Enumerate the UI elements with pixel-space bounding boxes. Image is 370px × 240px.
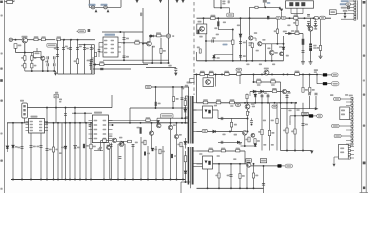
junction xyxy=(302,115,304,117)
wire ground bus 2 xyxy=(197,187,264,189)
resistor R942 xyxy=(302,87,304,92)
capacitor C943 xyxy=(40,146,43,148)
connector pin xyxy=(348,145,350,147)
optocoupler IC902 xyxy=(203,106,213,118)
label xyxy=(340,148,344,150)
label xyxy=(93,146,96,148)
junction xyxy=(313,17,315,19)
connector pin xyxy=(354,13,356,15)
resistor R952 xyxy=(180,142,182,147)
label xyxy=(49,149,52,151)
junction xyxy=(232,29,234,31)
connector pin xyxy=(354,6,356,8)
junction xyxy=(47,70,49,72)
optocoupler IC906 xyxy=(203,156,213,169)
label xyxy=(271,120,274,122)
label xyxy=(341,7,347,9)
wire hidden xyxy=(261,151,263,156)
wire xyxy=(281,12,283,18)
label xyxy=(209,71,213,73)
hidden xyxy=(308,89,310,91)
resistor R902 xyxy=(57,38,61,40)
label xyxy=(267,48,270,50)
label xyxy=(222,1,225,3)
wire xyxy=(42,60,44,71)
wire xyxy=(118,143,125,145)
net label xyxy=(145,85,151,88)
junction xyxy=(40,122,42,124)
label xyxy=(223,44,228,46)
wire hidden xyxy=(302,96,304,109)
wire filter bottom xyxy=(58,73,95,75)
wire xyxy=(290,115,309,117)
label xyxy=(217,155,220,157)
wire bus 108 xyxy=(130,107,185,109)
wire drop xyxy=(65,123,67,180)
wire xyxy=(79,44,95,46)
junction xyxy=(239,163,241,165)
label xyxy=(137,127,140,129)
label xyxy=(184,98,187,100)
junction xyxy=(157,122,159,124)
component K1 xyxy=(88,29,91,32)
transformer stub xyxy=(185,107,188,109)
wire xyxy=(249,92,251,97)
label xyxy=(314,71,317,73)
relay RL1 xyxy=(22,38,27,43)
label xyxy=(295,71,300,73)
label C902 xyxy=(101,4,108,6)
capacitor C936 xyxy=(308,93,311,95)
capacitor C920 xyxy=(89,64,92,66)
connector pin xyxy=(351,122,353,124)
wire xyxy=(302,34,304,60)
wire xyxy=(203,18,205,24)
transistor Q917 xyxy=(112,138,116,142)
wire xyxy=(282,165,285,167)
wire xyxy=(246,40,248,61)
junction xyxy=(112,124,114,126)
pin wire xyxy=(45,124,49,126)
junction xyxy=(302,73,304,75)
label xyxy=(154,149,157,151)
varistor Z901 xyxy=(24,56,26,60)
wire xyxy=(90,60,92,70)
wire xyxy=(184,138,186,149)
label plate AC 220V xyxy=(47,44,57,48)
frame bottom right corner xyxy=(360,191,369,193)
resistor R911 xyxy=(173,97,175,102)
wire xyxy=(129,108,131,123)
connector pin xyxy=(351,115,353,117)
capacitor C942 xyxy=(30,146,33,148)
pin label xyxy=(39,130,42,131)
wire xyxy=(53,60,55,64)
wire xyxy=(31,68,33,71)
junction xyxy=(69,122,71,124)
resistor R908 xyxy=(157,34,161,37)
wire xyxy=(120,0,122,7)
transformer stub xyxy=(193,122,197,124)
transformer stub xyxy=(193,150,197,152)
wire xyxy=(251,118,253,120)
wire xyxy=(24,118,26,123)
junction xyxy=(85,122,87,124)
resistor R962 xyxy=(230,122,232,127)
label xyxy=(252,106,255,108)
label xyxy=(77,147,80,149)
label xyxy=(242,175,245,177)
net label xyxy=(285,164,292,168)
wire xyxy=(188,87,190,96)
wire xyxy=(156,118,158,123)
label xyxy=(312,89,315,91)
diode D904 xyxy=(239,34,242,37)
frame right border outer xyxy=(361,0,363,193)
net label G4 xyxy=(334,134,341,137)
resistor R954 xyxy=(209,149,213,152)
capacitor C938 xyxy=(64,114,67,116)
net label xyxy=(78,30,86,33)
pin wire xyxy=(336,13,354,15)
wire aux xyxy=(151,86,189,88)
wire xyxy=(276,103,278,151)
wire xyxy=(16,52,34,54)
resistor R927 xyxy=(319,46,321,51)
label xyxy=(74,60,77,62)
pin wire xyxy=(89,129,93,131)
pin label xyxy=(104,52,107,54)
label xyxy=(146,117,150,119)
junction xyxy=(304,17,306,19)
wire xyxy=(55,108,57,123)
label xyxy=(264,92,267,94)
wire filter xyxy=(57,40,59,74)
junction xyxy=(251,60,253,62)
wire xyxy=(249,35,251,37)
diode D905 xyxy=(282,47,285,50)
label C901 xyxy=(89,4,96,6)
junction xyxy=(205,60,207,62)
frame letter D xyxy=(0,1,3,3)
wire xyxy=(38,39,41,41)
wire filter xyxy=(77,40,79,74)
connector body xyxy=(354,0,356,19)
junction xyxy=(160,62,162,64)
wire xyxy=(265,44,267,61)
resistor R953 xyxy=(184,156,187,162)
wire hidden xyxy=(193,155,197,157)
capacitor C953 xyxy=(230,175,233,177)
wire xyxy=(24,43,26,53)
wire xyxy=(218,164,220,189)
label xyxy=(126,38,129,40)
net label +B xyxy=(332,73,339,77)
label xyxy=(234,134,237,136)
IC IC905 xyxy=(92,115,108,143)
pin wire xyxy=(108,133,112,135)
wire drop xyxy=(155,146,157,180)
pin wire xyxy=(351,3,355,5)
junction xyxy=(55,107,57,109)
wire secondary bus xyxy=(197,102,297,104)
pin wire xyxy=(108,138,112,140)
capacitor C924 xyxy=(267,16,269,19)
wire xyxy=(231,119,233,132)
connector pin xyxy=(351,143,353,145)
junction xyxy=(12,122,14,124)
diode D915 xyxy=(184,171,187,174)
transistor Q902 mark xyxy=(197,30,199,34)
resistor R931 xyxy=(203,101,208,104)
pin wire xyxy=(350,157,354,159)
label xyxy=(141,142,144,144)
resistor R923 xyxy=(272,90,276,93)
label xyxy=(247,111,250,113)
wire drop xyxy=(69,123,71,180)
connector CN902 xyxy=(339,145,349,160)
junction xyxy=(249,17,251,19)
capacitor C917 xyxy=(123,38,126,40)
label xyxy=(271,79,276,81)
capacitor C958 xyxy=(286,96,289,98)
label xyxy=(263,120,266,122)
wire xyxy=(194,109,203,111)
label xyxy=(256,50,259,52)
wire drop xyxy=(176,148,178,180)
label xyxy=(245,139,248,141)
junction xyxy=(207,187,209,189)
wire xyxy=(74,108,76,123)
junction xyxy=(84,112,86,114)
label xyxy=(174,155,177,157)
transformer stub xyxy=(185,141,188,143)
pin wire xyxy=(350,150,354,152)
frame letter Y xyxy=(363,187,365,190)
capacitor C926 xyxy=(302,39,305,45)
capacitor C922 xyxy=(181,98,184,100)
label xyxy=(217,57,220,59)
wire xyxy=(313,115,316,117)
wire xyxy=(176,123,178,135)
diode D916 xyxy=(6,146,9,149)
label xyxy=(233,158,236,160)
box xyxy=(330,10,337,15)
junction xyxy=(267,102,269,104)
hidden xyxy=(92,125,94,127)
label D8 xyxy=(140,13,142,17)
AC terminal xyxy=(9,38,12,41)
ferrite bead FB4 xyxy=(277,164,281,167)
label xyxy=(234,124,237,126)
ferrite bead FB1 xyxy=(323,73,327,76)
junction xyxy=(230,187,232,189)
connector pin xyxy=(351,101,353,103)
wire xyxy=(47,60,49,64)
box Q902 xyxy=(197,24,207,34)
wire xyxy=(232,30,234,61)
label xyxy=(243,42,246,44)
ground arrow xyxy=(174,73,177,76)
junction xyxy=(276,17,278,19)
wire xyxy=(92,57,94,73)
label xyxy=(33,146,36,148)
wire hidden xyxy=(253,146,255,150)
wire xyxy=(261,94,263,103)
wire xyxy=(53,67,55,72)
wire xyxy=(100,141,102,151)
wire xyxy=(250,6,281,8)
junction xyxy=(12,179,14,181)
label xyxy=(330,94,333,96)
wire xyxy=(276,33,278,43)
wire ground bus xyxy=(11,179,185,181)
label xyxy=(341,0,349,2)
junction xyxy=(103,179,105,181)
wire xyxy=(315,18,317,21)
transistor Q920 xyxy=(107,146,111,150)
wire xyxy=(262,43,284,45)
wire xyxy=(249,7,251,35)
box xyxy=(190,78,194,82)
junction xyxy=(172,107,174,109)
wire drop xyxy=(30,133,32,180)
offpage arrow xyxy=(175,0,178,3)
label xyxy=(65,46,68,48)
junction xyxy=(30,122,32,124)
label xyxy=(288,110,291,112)
wire drop xyxy=(162,146,164,180)
resistor R922 xyxy=(271,80,275,83)
bridge box xyxy=(34,52,42,58)
wire xyxy=(196,74,198,102)
connector pin xyxy=(351,129,353,131)
label xyxy=(197,47,200,49)
pin label xyxy=(103,138,107,139)
junction xyxy=(253,73,255,75)
transformer T901 winding upper xyxy=(188,96,192,144)
label xyxy=(13,0,15,2)
junction xyxy=(261,102,263,104)
capacitor C923 xyxy=(212,39,214,42)
resistor R939 xyxy=(276,119,278,124)
bridge rectifier D901 xyxy=(41,56,45,60)
wire B+ bus xyxy=(194,73,319,75)
wire xyxy=(290,8,292,13)
resistor R918 xyxy=(209,73,213,76)
junction xyxy=(291,102,293,104)
label xyxy=(283,31,287,33)
wire xyxy=(315,96,317,109)
net label xyxy=(236,103,241,106)
label xyxy=(313,47,316,49)
label xyxy=(239,143,242,145)
wire xyxy=(207,74,209,77)
net label xyxy=(202,129,207,132)
label xyxy=(341,114,345,116)
wire drop xyxy=(110,143,112,180)
label xyxy=(251,103,255,105)
net label xyxy=(320,16,326,19)
wire xyxy=(316,74,318,83)
label xyxy=(21,65,24,67)
wire drop xyxy=(12,123,14,180)
wire xyxy=(206,40,233,42)
box label xyxy=(246,159,251,163)
junction xyxy=(203,17,205,19)
wire xyxy=(296,8,298,13)
wire xyxy=(98,43,100,58)
junction xyxy=(184,107,186,109)
label xyxy=(86,48,89,50)
junction xyxy=(239,187,241,189)
junction xyxy=(119,31,121,33)
label xyxy=(228,0,230,3)
label xyxy=(286,55,289,57)
wire hidden xyxy=(259,46,261,61)
label xyxy=(67,48,70,50)
resistor R961 xyxy=(255,6,258,8)
junction xyxy=(247,102,249,104)
net label G10 xyxy=(332,124,340,127)
frame letter F xyxy=(0,100,2,102)
junction xyxy=(247,131,249,133)
label xyxy=(314,69,318,71)
wire drop xyxy=(61,123,63,180)
transistor Q911 xyxy=(245,104,250,109)
wire xyxy=(185,151,187,182)
net label xyxy=(276,16,281,19)
frame letter H xyxy=(0,188,2,190)
wire bus xyxy=(103,59,169,61)
pin label xyxy=(103,133,107,134)
junction xyxy=(263,165,265,167)
wire xyxy=(196,52,198,61)
label xyxy=(181,88,184,90)
wire AC bus xyxy=(61,39,96,41)
wire xyxy=(45,39,55,41)
junction xyxy=(254,102,256,104)
junction xyxy=(168,62,170,64)
junction xyxy=(246,187,248,189)
label xyxy=(313,45,316,47)
capacitor C940 xyxy=(140,127,142,134)
wire xyxy=(25,70,56,72)
wire xyxy=(309,96,311,109)
junction xyxy=(176,179,178,181)
wire xyxy=(317,83,323,85)
wire standby bus xyxy=(197,163,247,165)
junction xyxy=(155,86,157,88)
pin wire xyxy=(350,7,354,9)
junction xyxy=(117,179,119,181)
junction xyxy=(184,117,186,119)
optocoupler IC902 internals xyxy=(205,110,211,114)
wire xyxy=(327,83,331,85)
diode D918 xyxy=(254,144,256,147)
wire xyxy=(24,53,26,56)
label xyxy=(230,105,233,107)
wire drop xyxy=(21,123,23,180)
wire bus 113 xyxy=(72,112,92,114)
net label xyxy=(317,114,323,118)
wire xyxy=(213,109,219,111)
wire riser xyxy=(111,95,113,108)
wire filter xyxy=(90,45,92,74)
label xyxy=(59,101,61,103)
net label G3 xyxy=(334,97,341,100)
capacitor C929 xyxy=(307,22,310,24)
